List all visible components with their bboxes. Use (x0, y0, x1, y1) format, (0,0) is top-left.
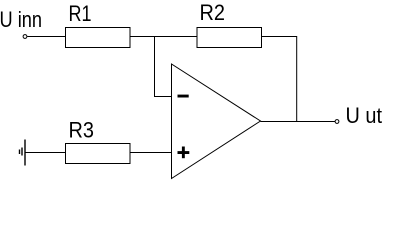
svg-text:R2: R2 (200, 0, 226, 25)
svg-text:U ut: U ut (346, 103, 383, 128)
svg-text:R1: R1 (69, 1, 92, 26)
svg-text:U inn: U inn (0, 7, 42, 32)
svg-text:R3: R3 (69, 117, 95, 142)
